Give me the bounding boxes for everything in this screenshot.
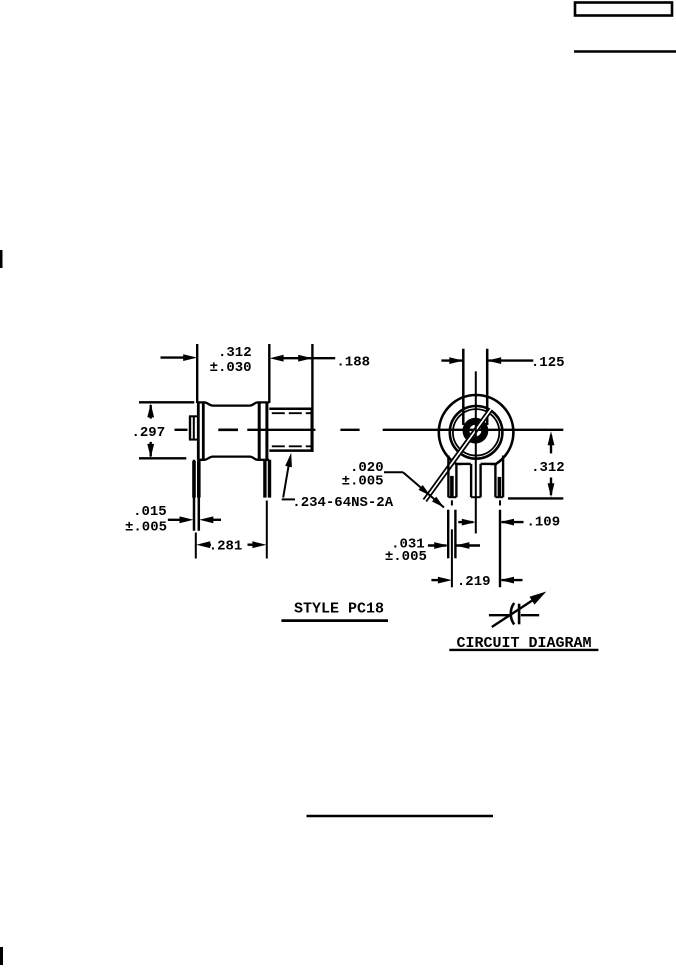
svg-text:±.005: ±.005 bbox=[125, 519, 167, 535]
svg-text:±.005: ±.005 bbox=[385, 549, 427, 565]
svg-text:.312: .312 bbox=[531, 460, 565, 476]
svg-text:.015: .015 bbox=[133, 504, 167, 520]
svg-text:.281: .281 bbox=[209, 539, 243, 555]
svg-text:.219: .219 bbox=[457, 574, 491, 590]
svg-text:CIRCUIT DIAGRAM: CIRCUIT DIAGRAM bbox=[457, 635, 592, 652]
svg-text:.297: .297 bbox=[132, 425, 166, 441]
svg-text:.109: .109 bbox=[527, 515, 561, 531]
svg-text:.234-64NS-2A: .234-64NS-2A bbox=[292, 495, 393, 511]
svg-text:.125: .125 bbox=[531, 355, 565, 371]
svg-text:±.030: ±.030 bbox=[210, 360, 252, 376]
svg-text:±.005: ±.005 bbox=[342, 474, 384, 490]
svg-text:.188: .188 bbox=[336, 355, 370, 371]
svg-text:.312: .312 bbox=[218, 345, 252, 361]
svg-text:STYLE PC18: STYLE PC18 bbox=[294, 601, 384, 618]
